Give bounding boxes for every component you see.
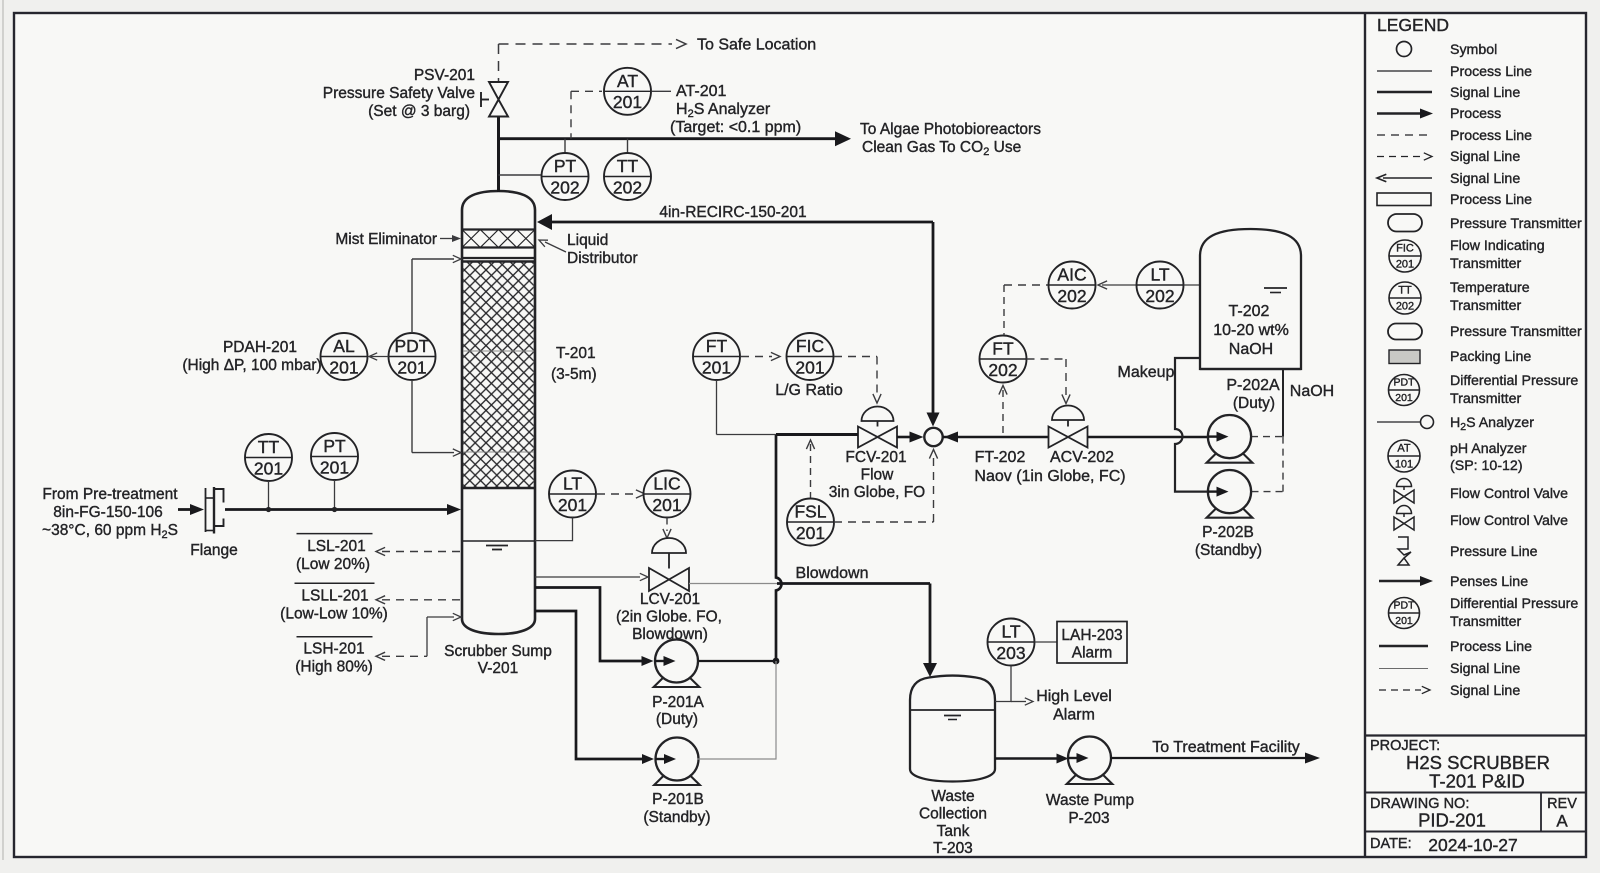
svg-text:PDAH-201: PDAH-201 [223,339,297,356]
wire LT to LIC dashed signal [597,493,639,495]
wire LT-203 tap to tank [995,666,1011,702]
wire AT-201 label leader [652,90,672,92]
pump P-203 waste pump [1067,737,1113,785]
wire LCV outlet to blowdown [689,583,777,585]
svg-text:LT: LT [1150,265,1169,285]
svg-text:PDT: PDT [1394,377,1416,389]
wire FSL dashed up to line [810,444,812,498]
svg-text:Differential Pressure: Differential Pressure [1450,373,1578,389]
legend flow control valve 2 [1397,506,1412,514]
liquid distributor line [462,257,535,259]
wire P-201A discharge [699,660,777,662]
svg-text:LT: LT [1001,622,1020,642]
svg-text:201: 201 [1395,392,1413,404]
legend stadium pressure transmitter 2 [1388,324,1422,340]
svg-text:TT: TT [1398,285,1412,297]
pump P-202A duty [1207,415,1253,463]
instrument AIC-202 analyzer controller [1049,262,1096,309]
svg-text:Signal Line: Signal Line [1450,683,1520,699]
legend rect process line [1377,193,1431,206]
svg-text:P-202B: P-202B [1202,524,1254,541]
svg-text:8in-FG-150-106: 8in-FG-150-106 [53,504,162,521]
svg-text:2024-10-27: 2024-10-27 [1428,835,1518,855]
svg-text:10-20 wt%: 10-20 wt% [1213,322,1289,339]
instrument PT-202 pressure transmitter [542,153,589,200]
svg-text:Signal Line: Signal Line [1450,85,1520,101]
svg-text:(Target: <0.1 ppm): (Target: <0.1 ppm) [670,119,801,136]
svg-text:AIC: AIC [1057,265,1086,285]
svg-text:Packing Line: Packing Line [1450,349,1531,365]
relief valve PSV-201 [489,82,508,100]
tank T-203 waste collection [910,676,995,782]
svg-text:V-201: V-201 [478,660,519,677]
wire feed arrow into flange [178,508,194,511]
svg-text:Pressure Transmitter: Pressure Transmitter [1450,216,1582,232]
svg-text:201: 201 [796,523,825,543]
svg-text:Collection: Collection [919,806,987,823]
instrument LT-202 level transmitter [1137,262,1184,309]
svg-text:PT: PT [323,436,346,456]
svg-text:Tank: Tank [937,823,970,840]
svg-text:(High 80%): (High 80%) [295,659,373,676]
svg-text:(Low 20%): (Low 20%) [296,556,370,573]
svg-text:FT-202: FT-202 [975,449,1026,466]
svg-text:Clean Gas To CO2 Use: Clean Gas To CO2 Use [862,139,1021,158]
legend stadium pressure transmitter [1388,214,1422,232]
svg-text:AT-201: AT-201 [676,83,727,100]
svg-text:(SP: 10-12): (SP: 10-12) [1450,458,1523,474]
instrument LT-203 level transmitter [988,619,1035,666]
svg-text:201: 201 [702,357,731,377]
wire sump outlet to P-201A [535,588,643,662]
svg-text:(Standby): (Standby) [1195,542,1262,559]
svg-text:(2in Globe. FO,: (2in Globe. FO, [616,609,722,626]
instrument legend PDT 2 [1389,598,1420,629]
svg-text:202: 202 [988,360,1017,380]
wire high level alarm arrow [1011,701,1026,703]
svg-text:Pressure Safety Valve: Pressure Safety Valve [323,85,475,102]
svg-text:LAH-203: LAH-203 [1061,627,1122,644]
instrument legend FIC [1389,240,1421,272]
svg-text:Signal Line: Signal Line [1450,149,1520,165]
instrument legend TT [1389,282,1421,314]
wire tank to P-203 [995,757,1058,760]
packing seam lines [463,350,534,352]
T-202 level mark [1264,287,1287,289]
svg-text:FIC: FIC [796,336,824,356]
svg-text:FSL: FSL [794,502,826,522]
svg-text:Signal Line: Signal Line [1450,661,1520,677]
svg-text:LT: LT [563,474,582,494]
svg-text:LIC: LIC [653,474,680,494]
svg-text:pH Analyzer: pH Analyzer [1450,441,1527,457]
wire FT-202 dashed tap [1002,390,1004,437]
svg-text:To Algae Photobioreactors: To Algae Photobioreactors [860,121,1041,138]
svg-text:AT: AT [617,71,638,91]
svg-text:Process Line: Process Line [1450,128,1532,144]
legend left arrow signal [1383,177,1432,179]
svg-text:Makeup: Makeup [1118,364,1175,381]
wire overhead gas line [499,137,841,140]
svg-text:P-202A: P-202A [1226,377,1280,394]
svg-text:P-201B: P-201B [652,791,704,808]
svg-text:101: 101 [1395,459,1413,471]
svg-text:Flow: Flow [861,467,895,484]
svg-text:~38°C, 60 ppm H2S: ~38°C, 60 ppm H2S [42,522,178,541]
wire LT-203 to LAH box [1035,641,1058,643]
svg-text:201: 201 [1396,259,1414,271]
wire ACV to pumps line with makeup hop [1088,436,1208,439]
svg-text:(Duty): (Duty) [1233,395,1275,412]
svg-text:REV: REV [1547,796,1577,812]
svg-text:LSH-201: LSH-201 [303,641,364,658]
wire blowdown drop to waste tank [929,584,932,667]
svg-text:202: 202 [613,177,642,197]
svg-text:FIC: FIC [1396,243,1414,255]
svg-text:201: 201 [795,357,824,377]
svg-text:201: 201 [558,495,587,515]
legend flow control valve 1 [1397,479,1412,487]
wire FT-201 tap [716,380,718,435]
wire TT-202 stem [627,139,629,153]
wire PDT upper tap [411,259,413,333]
svg-text:NaOH: NaOH [1229,341,1273,358]
control valve ACV-202 [1052,406,1084,421]
wire LT-201 tap [535,518,573,541]
svg-text:(Low-Low 10%): (Low-Low 10%) [280,606,388,623]
svg-text:201: 201 [320,457,349,477]
svg-text:Transmitter: Transmitter [1450,256,1521,272]
wire PT-202 tap line [499,174,542,176]
wire recirculation line 4in-RECIRC-150-201 [549,221,933,224]
svg-text:201: 201 [613,92,642,112]
instrument PT-201 pressure transmitter [311,433,358,480]
svg-text:Alarm: Alarm [1053,707,1095,724]
alarm box LAH-203 [1057,622,1127,664]
svg-text:T-202: T-202 [1229,303,1270,320]
wire PT-201 stem [334,480,336,510]
instrument FT-202 flow transmitter [980,336,1027,383]
svg-text:Flow Control Valve: Flow Control Valve [1450,486,1568,502]
node mixing tee [924,428,942,446]
svg-text:FT: FT [992,339,1014,359]
title block [1365,734,1586,736]
svg-text:From Pre-treatment: From Pre-treatment [42,486,178,503]
svg-text:(Standby): (Standby) [643,809,710,826]
legend dashed signal arrow [1377,156,1423,158]
wire PDT lower tap [411,380,413,453]
wire TT-201 stem [268,481,270,510]
svg-text:Pressure Transmitter: Pressure Transmitter [1450,324,1582,340]
node LSLL-201 low-low level switch label [295,582,375,584]
svg-text:NaOH: NaOH [1290,383,1334,400]
svg-text:PSV-201: PSV-201 [414,67,475,84]
vessel T-201 scrubber column shell [462,191,535,634]
svg-text:Naov (1in Globe, FC): Naov (1in Globe, FC) [974,468,1125,485]
legend symbol circle [1397,42,1412,57]
T-203 level mark [944,715,961,717]
wire FT to FIC dashed [741,356,772,358]
svg-text:High Level: High Level [1036,688,1112,705]
svg-text:T-201: T-201 [556,345,596,362]
instrument LIC-201 level controller [644,471,691,518]
wire FIC to FCV dashed [834,356,877,358]
control valve FCV-201 [862,407,894,422]
packing section hatch [463,262,533,489]
control valve LCV-201 [652,538,686,553]
svg-text:P-203: P-203 [1068,810,1109,827]
legend panel divider [1364,13,1366,857]
legend packing swatch [1389,350,1420,364]
svg-text:(High ΔP, 100 mbar): (High ΔP, 100 mbar) [182,357,321,374]
svg-text:LSLL-201: LSLL-201 [301,588,368,605]
instrument FSL-201 [787,499,834,546]
svg-text:PID-201: PID-201 [1418,810,1486,831]
flange symbol [205,488,207,532]
svg-text:PT: PT [554,156,577,176]
wire NaOH suction line [1282,369,1284,437]
svg-text:201: 201 [652,495,681,515]
svg-text:FCV-201: FCV-201 [845,449,906,466]
svg-text:Penses Line: Penses Line [1450,574,1528,590]
pump P-201A duty [654,640,700,688]
wire dashed vent line to safe location [498,44,500,81]
svg-text:Process Line: Process Line [1450,192,1532,208]
svg-text:LEGEND: LEGEND [1377,15,1449,35]
instrument TT-202 temperature transmitter [604,153,651,200]
legend signal line solid [1377,91,1432,94]
wire sump outlet to P-201B [535,611,644,759]
legend process line thin [1377,70,1432,72]
svg-text:To Treatment Facility: To Treatment Facility [1152,739,1300,756]
svg-text:202: 202 [1396,301,1414,313]
svg-text:Waste Pump: Waste Pump [1046,792,1134,809]
svg-text:DATE:: DATE: [1370,836,1412,852]
instrument legend AT [1388,440,1420,472]
svg-text:Liquid: Liquid [567,232,608,249]
svg-text:FT: FT [706,336,728,356]
svg-text:Signal Line: Signal Line [1450,171,1520,187]
svg-text:202: 202 [1145,286,1174,306]
svg-text:202: 202 [1057,286,1086,306]
svg-text:PDT: PDT [1394,600,1416,612]
svg-text:To Safe Location: To Safe Location [697,37,816,54]
legend pressure line glyph [1398,537,1411,565]
instrument TT-201 temperature transmitter [245,434,292,481]
svg-text:PDT: PDT [395,336,430,356]
svg-text:Transmitter: Transmitter [1450,298,1521,314]
svg-text:Waste: Waste [931,788,974,805]
wire PT-202 stem [564,139,566,153]
wire P-203 discharge to treatment [1110,757,1310,759]
pump P-202B standby [1207,470,1253,518]
instrument LT-201 level transmitter [549,471,596,518]
svg-text:202: 202 [550,177,579,197]
wire riser to L/G line with hop [776,435,781,662]
svg-text:Distributor: Distributor [567,250,638,267]
svg-text:ACV-202: ACV-202 [1050,449,1114,466]
svg-text:Flow Control Valve: Flow Control Valve [1450,513,1568,529]
svg-text:Transmitter: Transmitter [1450,614,1521,630]
svg-text:Scrubber Sump: Scrubber Sump [444,643,552,660]
svg-text:T-201 P&ID: T-201 P&ID [1429,771,1525,792]
svg-text:Mist Eliminator: Mist Eliminator [335,231,437,248]
wire P-201B discharge thin [698,661,777,759]
legend H2S analyzer [1377,421,1420,423]
svg-text:AT: AT [1397,443,1411,455]
legend process arrow [1377,112,1422,115]
svg-text:A: A [1556,812,1568,831]
svg-text:3in Globe, FO: 3in Globe, FO [829,484,926,501]
svg-text:L/G Ratio: L/G Ratio [775,382,843,399]
svg-text:Process Line: Process Line [1450,64,1532,80]
sump liquid level [462,540,535,542]
mist eliminator band [462,228,535,230]
instrument AL-201 alarm [321,333,368,380]
svg-text:201: 201 [1395,615,1413,627]
pump P-201B standby [654,738,700,786]
node LSH-201 high level switch label [297,636,373,638]
wire L/G line into mixing node [776,433,858,436]
wire dashed AT-201 sample line [571,90,602,92]
wire LT-202 to tank [1184,284,1201,286]
svg-text:(3-5m): (3-5m) [551,366,597,383]
wire PDT to AL arrow [371,356,389,358]
instrument FT-201 flow transmitter [693,333,740,380]
wire main feed line to column [225,508,453,511]
svg-text:203: 203 [996,643,1025,663]
legend signal line thin gray [1379,668,1428,670]
svg-text:T-203: T-203 [933,840,973,857]
svg-text:Process Line: Process Line [1450,639,1532,655]
svg-text:Blowdown: Blowdown [796,565,869,582]
svg-text:Flow Indicating: Flow Indicating [1450,238,1545,254]
wire AIC dashed to FT-202 [1004,284,1048,286]
svg-text:Differential Pressure: Differential Pressure [1450,596,1578,612]
svg-text:LSL-201: LSL-201 [307,538,366,555]
svg-text:Temperature: Temperature [1450,280,1530,296]
wire riser from column top to PSV [497,116,500,192]
wire LT-202 to AIC-202 [1102,284,1136,286]
svg-text:Process: Process [1450,106,1501,122]
svg-text:201: 201 [329,357,358,377]
svg-text:LCV-201: LCV-201 [640,591,700,608]
legend signal dashed arrow 2 [1379,689,1421,691]
svg-text:TT: TT [258,437,280,457]
legend dashed process line [1377,134,1432,136]
svg-text:(Duty): (Duty) [656,711,698,728]
wire FSL dashed to node [834,521,934,523]
svg-text:(Set @ 3 barg): (Set @ 3 barg) [368,103,470,120]
svg-text:Symbol: Symbol [1450,42,1497,58]
wire NaOH line node to ACV [943,436,1048,439]
wire sump outlet to LCV [535,576,640,578]
svg-text:TT: TT [617,156,639,176]
wire FT-202 to ACV dashed [1027,358,1067,360]
tank T-202 NaOH storage [1200,229,1301,369]
wire LIC to LCV dashed signal [666,518,668,532]
svg-text:201: 201 [254,458,283,478]
legend penses arrow [1379,580,1422,583]
instrument PDT-201 differential pressure transmitter [389,333,436,380]
svg-text:AL: AL [333,336,355,356]
legend process line bold [1379,645,1428,648]
wire makeup line with hop [1175,358,1214,492]
instrument AT-201 H2S analyzer [604,68,651,115]
svg-text:Transmitter: Transmitter [1450,391,1521,407]
svg-text:Flange: Flange [190,542,237,559]
svg-text:4in-RECIRC-150-201: 4in-RECIRC-150-201 [659,204,806,221]
svg-text:Pressure Line: Pressure Line [1450,544,1538,560]
svg-text:Alarm: Alarm [1072,645,1112,662]
svg-text:201: 201 [397,357,426,377]
node LSL-201 low level switch label [297,533,373,535]
instrument FIC-201 flow controller [787,333,834,380]
instrument legend PDT [1389,375,1420,406]
svg-text:P-201A: P-201A [652,694,704,711]
